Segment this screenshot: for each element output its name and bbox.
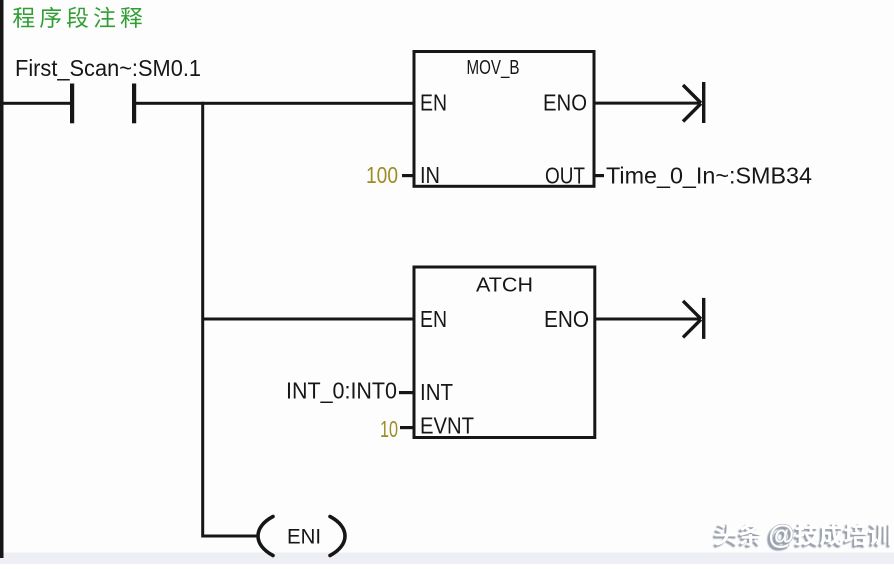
- svg-text:IN: IN: [420, 162, 440, 188]
- wire ENO to branch arrow (MOV_B): [594, 82, 704, 123]
- svg-text:ENO: ENO: [544, 306, 589, 332]
- branch vertical wire: [201, 102, 204, 538]
- svg-text:INT: INT: [420, 379, 453, 405]
- svg-text:First_Scan~:SM0.1: First_Scan~:SM0.1: [15, 55, 201, 81]
- svg-text:ENI: ENI: [287, 526, 321, 549]
- svg-text:@: @: [769, 520, 795, 550]
- wire INT0 to INT pin: [399, 391, 413, 394]
- block MOV_B box: [414, 52, 594, 187]
- wire OUT pin to operand: [594, 174, 604, 177]
- wire branch to ATCH EN: [202, 318, 414, 321]
- wire branch to ENI coil: [202, 535, 257, 538]
- svg-text:ENO: ENO: [543, 90, 587, 116]
- coil ENI right parenthesis: [330, 517, 345, 556]
- wire rail to contact: [4, 102, 71, 105]
- svg-text:10: 10: [380, 416, 398, 442]
- svg-text:MOV_B: MOV_B: [467, 56, 520, 79]
- svg-text:ATCH: ATCH: [476, 274, 533, 297]
- contact First_Scan~:SM0.1 right bar: [132, 84, 136, 124]
- svg-text:Time_0_In~:SMB34: Time_0_In~:SMB34: [606, 163, 812, 189]
- svg-text:EN: EN: [420, 306, 447, 332]
- wire 100 to IN pin: [402, 174, 413, 177]
- network comment text 程序段注释: [13, 7, 142, 28]
- left power rail: [0, 0, 4, 558]
- wire 10 to EVNT pin: [400, 426, 413, 429]
- block ATCH box: [414, 267, 595, 438]
- svg-text:EN: EN: [420, 90, 447, 116]
- svg-text:INT_0:INT0: INT_0:INT0: [286, 378, 397, 404]
- bottom band: [0, 553, 894, 565]
- svg-text:OUT: OUT: [545, 163, 585, 189]
- contact First_Scan~:SM0.1 left bar: [70, 84, 74, 124]
- svg-text:EVNT: EVNT: [420, 413, 474, 439]
- wire contact to MOV_B EN: [136, 102, 414, 105]
- svg-text:100: 100: [366, 162, 398, 188]
- wire ENO to branch arrow (ATCH): [595, 298, 704, 339]
- coil ENI left parenthesis: [258, 517, 273, 556]
- watermark 头条@技成培训: [715, 520, 891, 550]
